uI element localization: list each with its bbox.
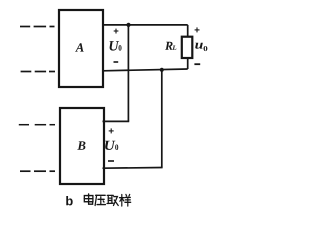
wire: A plus output to RL top: [103, 24, 188, 26]
label L sub of RL: [172, 46, 176, 50]
label 0 sub of uo: [204, 46, 208, 51]
wire: RL bottom stub: [187, 57, 189, 69]
label 0 sub of A: [119, 45, 122, 51]
dashed input line B bottom: [20, 170, 55, 172]
node: junction of A-/B-: [160, 68, 164, 72]
wire: vertical from bottom node to B minus output: [161, 70, 163, 168]
caption hanzi dian: [84, 194, 93, 204]
label U of B: [105, 141, 115, 150]
plus sign at uo: [195, 27, 200, 32]
node: junction of A+/B+: [126, 23, 130, 27]
label u of uo: [195, 43, 203, 49]
wire: RL top stub: [187, 25, 189, 37]
caption hanzi yang: [120, 194, 131, 206]
minus sign at uo: [194, 63, 200, 65]
minus sign at A output: [114, 61, 119, 63]
amplifier block B: [60, 108, 104, 184]
dashed input line A bottom: [21, 71, 55, 73]
wire: B minus output horizontal: [103, 167, 163, 170]
resistor RL: [182, 37, 193, 58]
label B: [77, 141, 85, 149]
caption letter b: [66, 196, 72, 205]
minus sign at B output: [108, 160, 114, 162]
label 0 sub of B: [115, 144, 118, 150]
wire: A minus output to RL bottom: [103, 69, 188, 71]
caption hanzi qu: [107, 195, 118, 205]
plus sign at B output: [109, 128, 114, 133]
dashed input line B top: [19, 124, 55, 126]
wire: vertical from top node to B plus output: [127, 25, 129, 122]
label U of A: [110, 41, 120, 51]
wire: B plus output horizontal: [103, 120, 130, 122]
amplifier block A: [59, 10, 103, 87]
dashed input line A top: [20, 26, 55, 28]
plus sign at A output: [114, 29, 119, 34]
label A: [75, 43, 84, 51]
label R of RL: [165, 42, 173, 50]
caption hanzi ya: [95, 195, 105, 205]
